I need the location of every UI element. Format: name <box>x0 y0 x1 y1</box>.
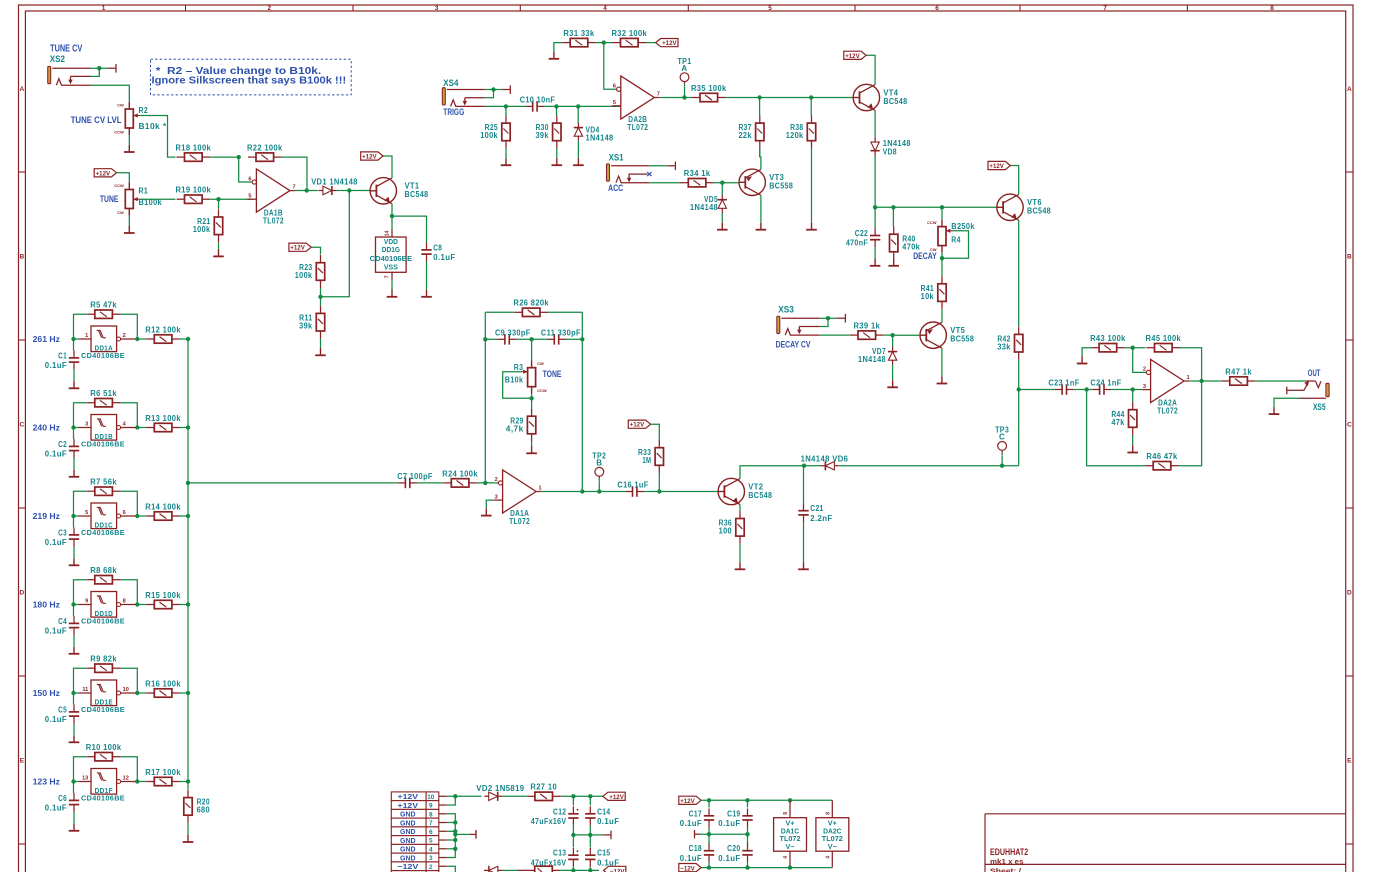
ground <box>213 249 224 256</box>
svg-text:GND: GND <box>400 810 416 819</box>
wire <box>941 348 943 376</box>
wire <box>839 465 1019 467</box>
ground <box>124 145 135 152</box>
svg-text:R15 100k: R15 100k <box>145 591 181 600</box>
svg-text:6: 6 <box>248 176 251 182</box>
wire <box>517 338 547 340</box>
junction at 137.3,781.5 <box>135 779 139 783</box>
resistor R43 <box>1090 334 1126 352</box>
svg-text:150 Hz: 150 Hz <box>33 688 60 698</box>
wire <box>759 98 761 116</box>
wire <box>819 317 836 319</box>
svg-text:180 Hz: 180 Hz <box>33 599 60 609</box>
junction at 188,482.9 <box>186 481 190 485</box>
GND tie terminal 3 <box>695 830 701 838</box>
svg-text:11: 11 <box>82 687 88 693</box>
wire <box>417 482 443 484</box>
junction at 556.5,106.4 <box>554 104 558 108</box>
wire <box>747 862 749 867</box>
junction at 1018.7,389.5 <box>1017 387 1021 391</box>
svg-text:4: 4 <box>826 856 832 859</box>
wire <box>503 372 532 399</box>
inverter DD1B labels <box>81 432 125 449</box>
svg-text:CD40106BE: CD40106BE <box>81 617 125 626</box>
wire <box>589 867 591 872</box>
wire <box>708 862 710 867</box>
svg-text:C9 330pF: C9 330pF <box>495 328 531 337</box>
svg-text:TUNE CV LVL: TUNE CV LVL <box>71 114 122 125</box>
junction at 828,318.2 <box>826 316 830 320</box>
wire <box>320 339 322 349</box>
svg-text:C5: C5 <box>58 705 67 714</box>
capacitor C20 0.1uF <box>718 843 752 863</box>
wire <box>803 522 805 562</box>
svg-text:TL072: TL072 <box>263 216 284 225</box>
junction at 582.3,491.5 <box>580 489 584 493</box>
svg-text:C21: C21 <box>810 504 823 513</box>
wire <box>74 338 79 340</box>
label TRIGG <box>443 106 464 117</box>
potentiometer R4 <box>927 220 953 253</box>
junction at 455.3,848.8 <box>453 847 457 851</box>
svg-text:C7 100pF: C7 100pF <box>397 472 433 481</box>
ground <box>552 158 563 165</box>
diode VD2 1N5819 <box>484 792 502 801</box>
capacitor C14 0.1uF <box>585 806 619 826</box>
wire <box>1255 380 1305 382</box>
svg-text:TL072: TL072 <box>627 123 648 132</box>
wire <box>866 55 875 84</box>
svg-text:BC558: BC558 <box>769 182 793 191</box>
wire <box>505 106 507 115</box>
wire <box>218 199 220 209</box>
svg-text:9: 9 <box>85 599 88 605</box>
wire <box>874 110 876 137</box>
wire <box>140 198 176 200</box>
capacitor C6 <box>45 793 79 813</box>
wire <box>137 781 146 783</box>
svg-text:4,7k: 4,7k <box>506 424 524 433</box>
svg-text:R6 51k: R6 51k <box>90 389 117 398</box>
wire <box>531 394 533 409</box>
capacitor C15 0.1uF <box>585 848 619 868</box>
ground <box>69 381 80 388</box>
wire <box>1001 456 1003 466</box>
svg-text:4: 4 <box>429 846 433 853</box>
svg-text:3: 3 <box>1143 384 1146 390</box>
wire <box>74 427 79 429</box>
wire <box>577 141 579 158</box>
resistor R41 <box>921 276 947 309</box>
diode VD5 labels <box>690 195 718 212</box>
wire <box>596 42 613 44</box>
power flag -12V rail <box>679 864 701 872</box>
wire <box>759 148 761 157</box>
junction at 747.5,800.3 <box>745 798 749 802</box>
svg-text:C: C <box>20 422 25 429</box>
junction at 1002.1,465.7 <box>1000 464 1004 468</box>
svg-text:R1: R1 <box>139 186 149 195</box>
potentiometer R3 <box>521 361 547 394</box>
junction at 573.4,796.3 <box>571 794 575 798</box>
wire <box>447 848 456 850</box>
svg-text:8: 8 <box>826 812 832 815</box>
svg-text:0.1uF: 0.1uF <box>45 361 67 370</box>
wire <box>644 491 718 493</box>
junction at 485.3,482.9 <box>483 481 487 485</box>
wire <box>74 781 79 783</box>
wire -12V bottom row <box>503 869 600 871</box>
wire <box>548 311 582 313</box>
junction at 306.7,190.5 <box>305 188 309 192</box>
resistor R13 <box>145 414 181 432</box>
ground <box>1269 407 1280 414</box>
svg-text:+12V: +12V <box>630 422 645 429</box>
capacitor C16 1uF <box>617 481 648 497</box>
svg-text:0.1uF: 0.1uF <box>718 854 740 863</box>
wire <box>337 190 371 192</box>
wire <box>893 334 920 336</box>
wire <box>760 148 761 169</box>
svg-text:GND: GND <box>400 827 416 836</box>
wire <box>74 491 87 516</box>
wire <box>739 504 741 510</box>
resistor R35 <box>691 84 727 102</box>
svg-text:B: B <box>1347 254 1352 261</box>
wire <box>577 106 579 123</box>
connector XS1 (ACC jack) <box>607 162 676 183</box>
svg-text:C15: C15 <box>597 849 610 858</box>
power flag +12V (decoupling) <box>679 796 701 805</box>
svg-text:+12V: +12V <box>96 170 111 177</box>
wire <box>218 243 220 250</box>
svg-text:C14: C14 <box>597 807 610 816</box>
resistor R20 <box>184 790 210 823</box>
svg-text:R17 100k: R17 100k <box>145 768 181 777</box>
svg-text:1N4148: 1N4148 <box>586 134 614 143</box>
wire <box>554 43 562 52</box>
svg-text:0.1uF: 0.1uF <box>680 854 702 863</box>
wire <box>1111 389 1141 391</box>
power flag +12V (R33) <box>628 420 650 429</box>
wire <box>1274 398 1299 407</box>
capacitor C17 0.1uF <box>680 808 714 828</box>
reference XS3 <box>778 305 794 315</box>
resistor R9 <box>87 655 121 673</box>
svg-text:5: 5 <box>768 5 772 12</box>
junction at 238.7,157.1 <box>237 155 241 159</box>
wire <box>708 800 710 807</box>
junction at 659.3,491.5 <box>657 489 661 493</box>
svg-text:R13 100k: R13 100k <box>145 414 181 423</box>
junction at 578.2,106.4 <box>576 104 580 108</box>
wire <box>561 795 603 797</box>
svg-text:8: 8 <box>1270 5 1274 12</box>
svg-text:B: B <box>20 254 25 261</box>
junction at 73.5,427.5 <box>71 425 75 429</box>
inverter DD1E labels <box>81 697 125 714</box>
wire <box>180 427 188 429</box>
junction at 590.3,796.3 <box>588 794 592 798</box>
connector XS3 (DECAY CV jack) <box>777 314 846 335</box>
capacitor C11 330pF <box>541 328 581 344</box>
wire <box>485 338 497 340</box>
svg-text:TUNE: TUNE <box>100 193 119 204</box>
junction at 485.3,339.3 <box>483 337 487 341</box>
svg-text:0.1uF: 0.1uF <box>597 817 619 826</box>
label 150 Hz <box>33 688 60 698</box>
svg-text:4: 4 <box>783 856 789 859</box>
wire <box>447 796 456 805</box>
transistor VT5 <box>920 322 974 348</box>
junction at 493.5,89.5 <box>491 87 495 91</box>
junction at 392,216.1 <box>390 214 394 218</box>
resistor R26 <box>513 299 549 317</box>
wire <box>188 482 398 484</box>
svg-text:0.1uF: 0.1uF <box>45 715 67 724</box>
ground <box>124 226 135 233</box>
svg-text:R5 47k: R5 47k <box>90 301 117 310</box>
transistor VT4 <box>853 84 907 110</box>
wire <box>321 191 350 297</box>
junction at 590.3,834.9 <box>588 833 592 837</box>
diode VD7 1N4148 <box>888 347 897 365</box>
svg-text:C17: C17 <box>689 809 702 818</box>
svg-text:14: 14 <box>385 231 391 237</box>
svg-text:R39 1k: R39 1k <box>853 322 880 331</box>
wire <box>210 198 252 200</box>
junction at 137.3,693.0 <box>135 691 139 695</box>
svg-text:R43 100k: R43 100k <box>1090 334 1126 343</box>
label ACC <box>608 182 623 193</box>
svg-text:5: 5 <box>85 510 88 516</box>
junction at 455.3,834.4 <box>453 832 457 836</box>
label 180 Hz <box>33 599 60 609</box>
junction at 1201.6,381 <box>1199 379 1203 383</box>
junction at 804,465.7 <box>802 464 806 468</box>
wire <box>740 466 821 479</box>
junction at 942,258.2 <box>940 256 944 260</box>
ground <box>887 380 898 387</box>
resistor R27 <box>527 783 561 801</box>
junction at 1132.7,389.5 <box>1131 387 1135 391</box>
svg-text:7: 7 <box>1103 5 1107 12</box>
junction at 875.1,207.3 <box>873 205 877 209</box>
svg-text:5: 5 <box>613 100 616 106</box>
wire <box>74 757 87 782</box>
wire <box>137 515 146 517</box>
wire <box>311 247 320 254</box>
junction at 790,867.6 <box>788 865 792 869</box>
svg-text:C2: C2 <box>58 440 67 449</box>
connector XS4 (TRIGG input jack) <box>442 85 510 106</box>
potentiometer R2 labels <box>139 106 167 131</box>
svg-text:R46 47k: R46 47k <box>1146 452 1177 461</box>
wire <box>604 43 617 90</box>
junction at 684.5,97.5 <box>682 95 686 99</box>
inverter DD1A (CD40106BE) <box>79 326 138 352</box>
wire <box>73 635 75 647</box>
wire <box>485 90 494 98</box>
op-amp DA1B labels <box>263 208 284 225</box>
capacitor C4 <box>45 616 79 636</box>
svg-text:2: 2 <box>429 864 433 871</box>
capacitor C8 0.1uF <box>421 243 455 263</box>
svg-text:C: C <box>999 433 1005 442</box>
wire <box>74 580 87 605</box>
svg-text:R2: R2 <box>139 106 149 115</box>
junction at 505.9,106.4 <box>504 104 508 108</box>
svg-text:TL072: TL072 <box>509 517 530 526</box>
junction at 722.3,182.7 <box>720 181 724 185</box>
svg-text:R4: R4 <box>951 235 961 244</box>
wire <box>875 206 997 208</box>
wire <box>121 580 138 605</box>
svg-text:E: E <box>1347 758 1352 765</box>
ground <box>870 259 881 266</box>
capacitor C13 47uFx16V <box>531 848 579 868</box>
wire <box>73 782 75 794</box>
junction at 1132.7,347.7 <box>1131 346 1135 350</box>
wire <box>803 466 805 504</box>
svg-text:TUNE CV: TUNE CV <box>50 43 82 54</box>
svg-text:CW: CW <box>537 361 544 366</box>
resistor R8 <box>87 566 121 584</box>
wire <box>646 42 656 44</box>
wire <box>649 182 680 184</box>
diode VD4 1N4148 <box>574 123 583 141</box>
svg-text:3: 3 <box>85 422 88 428</box>
wire <box>572 867 574 872</box>
ground <box>481 509 492 516</box>
wire <box>210 156 239 158</box>
wire <box>819 318 828 326</box>
label 261 Hz <box>33 334 60 344</box>
wire <box>1125 347 1146 349</box>
svg-text:CCW: CCW <box>114 130 124 135</box>
inverter DD1D (CD40106BE) <box>79 592 138 618</box>
wire <box>486 500 493 509</box>
svg-text:TL072: TL072 <box>822 836 843 843</box>
svg-text:CD40106BE: CD40106BE <box>81 440 125 449</box>
svg-text:A: A <box>681 64 687 73</box>
junction at 218.5,199.2 <box>216 197 220 201</box>
ground <box>183 835 194 842</box>
resistor R10 <box>86 743 122 761</box>
svg-text:XS2: XS2 <box>50 54 65 64</box>
resistor R47 <box>1222 367 1256 385</box>
svg-text:0.1uF: 0.1uF <box>45 804 67 813</box>
resistor R12 <box>145 325 181 343</box>
junction at 790,800.3 <box>788 798 792 802</box>
reference XS1 <box>609 152 624 162</box>
resistor R19 <box>176 186 212 204</box>
reference XS4 <box>443 78 458 88</box>
resistor R46 <box>1145 452 1179 470</box>
resistor R17 <box>145 768 181 786</box>
wire <box>383 156 392 178</box>
svg-text:BC548: BC548 <box>748 491 772 500</box>
svg-text:C11 330pF: C11 330pF <box>541 328 581 337</box>
junction at 455.3,822.5 <box>453 820 457 824</box>
svg-text:R22 100k: R22 100k <box>247 144 283 153</box>
svg-text:R18 100k: R18 100k <box>176 144 212 153</box>
wire <box>426 262 428 291</box>
svg-text:R8 68k: R8 68k <box>90 566 117 575</box>
wire <box>180 604 188 606</box>
wire <box>598 481 600 491</box>
junction at 455.3,831.3 <box>453 829 457 833</box>
label TONE <box>543 368 562 379</box>
svg-text:VD1 1N4148: VD1 1N4148 <box>311 178 358 187</box>
wire <box>1018 360 1020 390</box>
wire <box>941 309 943 322</box>
GND tie terminal <box>470 830 476 839</box>
svg-text:+12V: +12V <box>609 794 624 801</box>
svg-text:10: 10 <box>123 687 129 693</box>
svg-text:1: 1 <box>539 486 542 492</box>
potentiometer R2 <box>114 102 140 135</box>
op-amp DA2A labels <box>1157 399 1178 416</box>
wire <box>91 67 108 69</box>
label 240 Hz <box>33 422 60 432</box>
wire <box>447 795 482 797</box>
wire <box>941 207 943 219</box>
resistor R6 <box>87 389 121 407</box>
ground <box>937 377 948 384</box>
resistor R22 <box>247 144 283 162</box>
svg-text:8: 8 <box>123 599 126 605</box>
svg-text:5: 5 <box>429 838 433 845</box>
diode VD8 1N4148 <box>871 138 880 156</box>
svg-text:XS3: XS3 <box>778 305 794 315</box>
wire <box>137 338 146 340</box>
svg-text:1N4148 VD6: 1N4148 VD6 <box>801 454 849 463</box>
svg-text:−12V: −12V <box>397 862 418 871</box>
power flag +12V (VD2) <box>603 792 625 801</box>
svg-text:10: 10 <box>427 794 435 801</box>
capacitor C24 1nF <box>1090 379 1121 395</box>
svg-text:BC548: BC548 <box>1027 207 1051 216</box>
wire <box>659 97 692 99</box>
svg-text:+12V: +12V <box>398 801 419 810</box>
ground <box>501 158 512 165</box>
svg-text:2: 2 <box>123 333 126 339</box>
wire <box>1132 390 1134 403</box>
svg-text:7: 7 <box>657 92 660 98</box>
wire <box>73 724 75 736</box>
wire <box>73 812 75 824</box>
svg-text:C1: C1 <box>58 351 67 360</box>
svg-text:TONE: TONE <box>543 368 562 379</box>
wire <box>941 253 943 277</box>
svg-text:+12V: +12V <box>680 798 695 805</box>
op-amp DA2B pin numbers <box>613 84 660 107</box>
diode VD6 1N4148 <box>821 461 839 470</box>
resistor R37 <box>738 115 764 148</box>
wire <box>74 668 87 693</box>
wire <box>1010 166 1018 195</box>
ground <box>735 562 746 569</box>
wire <box>1179 381 1202 466</box>
junction at 188,781.5 <box>186 779 190 783</box>
wire <box>485 105 526 107</box>
junction at 73.5,339.0 <box>71 337 75 341</box>
wire <box>1018 220 1020 327</box>
svg-text:V+: V+ <box>828 821 837 828</box>
wire <box>128 135 130 145</box>
wire <box>1082 348 1091 357</box>
